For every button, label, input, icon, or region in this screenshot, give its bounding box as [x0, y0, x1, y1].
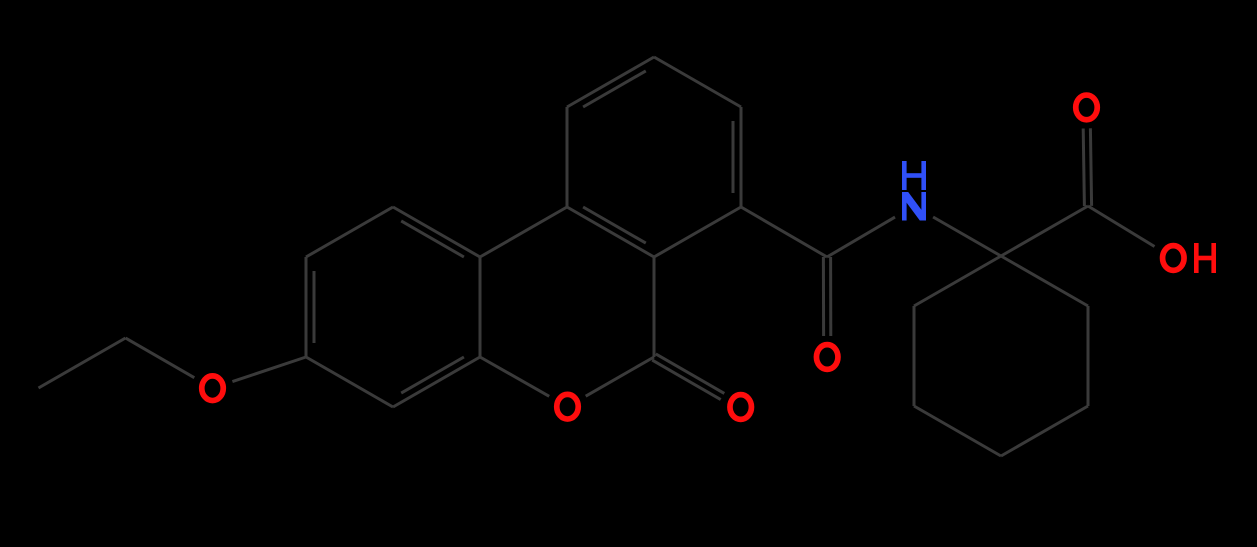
wire: aromatic fusion bond C6a-C10a — [567, 207, 654, 257]
wire: aromatic bond left ring lower right — [393, 357, 480, 407]
wire: aromatic bond C8-C9 left ring — [306, 357, 393, 407]
atom label N (amide nitrogen) — [902, 192, 926, 221]
wire: double bond amide C=O — [823, 257, 830, 336]
wire: bond amide C-N — [827, 217, 895, 257]
wire: aromatic bond upper ring top-left — [567, 57, 654, 107]
wire: bond ring O-C6 lactone — [586, 357, 654, 396]
wire: bond C6-C6a lactone ring — [653, 257, 656, 357]
wire: double bond lactone C6=O — [652, 354, 724, 400]
atom label H of OH (hydroxyl hydrogen) — [1194, 243, 1216, 273]
wire: aromatic bond upper ring left — [566, 107, 569, 207]
wire: aromatic bond upper ring bottom-right — [654, 207, 741, 257]
wire: aromatic bond C9-C10 left ring — [305, 257, 308, 357]
wire: aromatic bond upper ring right — [740, 107, 743, 207]
atom label O (ethoxy oxygen) — [202, 376, 224, 401]
wire: cyclohexane bond 3-4 — [914, 406, 1001, 456]
wire: aromatic bond C10-C10a left ring — [306, 207, 393, 257]
atom label O (lactone carbonyl oxygen) — [730, 395, 752, 420]
wire: inner aromatic line upper ring right — [732, 121, 735, 193]
wire: bond CH3-CH2 of ethyl — [39, 338, 126, 388]
wire: bond C10b ring fusion — [480, 207, 567, 257]
wire: aromatic bond C10a-C10b left ring — [393, 207, 480, 257]
wire: bond CH2-O of ethoxy — [126, 338, 195, 378]
wire: double bond carboxyl C=O — [1083, 128, 1091, 206]
wire: bond ethoxy O to benzene C9 — [232, 357, 306, 382]
wire: bond C-O ring oxygen — [480, 357, 549, 396]
atom label O of OH (hydroxyl) — [1163, 246, 1185, 271]
atom label O (lactone ring oxygen) — [557, 394, 579, 419]
wire: inner aromatic line left ring top — [401, 221, 464, 257]
wire: cyclohexane bond 5-6 — [1087, 306, 1090, 406]
wire: bond carboxyl C-OH — [1088, 206, 1155, 247]
wire: aromatic bond upper ring top-right — [654, 57, 741, 107]
wire: inner aromatic line fusion bond — [583, 207, 646, 243]
wire: inner aromatic line upper ring top-left — [583, 71, 646, 107]
wire: fused bond C10b-C? left ring/lactone — [479, 257, 482, 357]
wire: cyclohexane bond 6-1 — [1001, 256, 1088, 306]
wire: inner aromatic line left ring side — [313, 271, 316, 343]
wire: bond N-quaternary C — [933, 217, 1001, 256]
atom label H (amide N-H hydrogen) — [902, 161, 926, 190]
wire: cyclohexane bond 2-3 — [913, 306, 916, 406]
wire: bond quaternary C-carboxyl C — [1001, 206, 1088, 256]
wire: cyclohexane bond 1-2 — [914, 256, 1001, 306]
wire: cyclohexane bond 4-5 — [1001, 406, 1088, 456]
atom label O (carboxyl double-bond oxygen) — [1076, 95, 1098, 120]
atom label O (amide carbonyl oxygen) — [816, 345, 838, 370]
wire: bond aryl-amide carbonyl C — [741, 207, 827, 257]
wire: inner aromatic line left ring bottom — [401, 357, 464, 393]
